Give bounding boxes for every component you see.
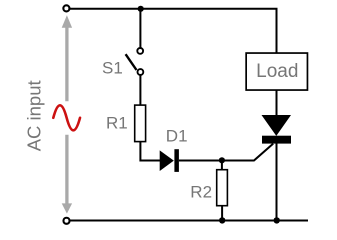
svg-text:D1: D1 [166, 127, 188, 146]
svg-text:Load: Load [256, 61, 298, 82]
svg-text:R2: R2 [190, 183, 212, 202]
svg-text:AC input: AC input [23, 80, 44, 151]
svg-text:R1: R1 [106, 113, 128, 132]
svg-text:S1: S1 [102, 58, 123, 77]
